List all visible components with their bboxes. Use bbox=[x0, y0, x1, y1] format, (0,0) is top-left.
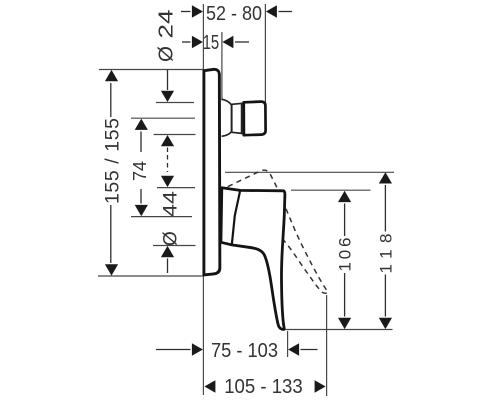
wire extension handle center (74 bottom ref) bbox=[131, 216, 192, 218]
wire extension 106 top bbox=[291, 189, 371, 191]
svg-text:118: 118 bbox=[377, 234, 396, 274]
wire extension 155 bottom bbox=[98, 275, 203, 277]
dimension 106 (right) bbox=[338, 191, 351, 202]
dimension 15 bbox=[192, 36, 234, 49]
wire extension knob top (dia 24) bbox=[156, 102, 194, 104]
dia44 dimension top arrow bbox=[161, 176, 174, 187]
wire extension handle top (dia 44) bbox=[157, 187, 195, 189]
dimension 52-80 bbox=[192, 5, 277, 18]
dimension 74 bbox=[135, 119, 148, 130]
svg-text:24: 24 bbox=[155, 10, 178, 39]
knob ring cylinder bbox=[232, 103, 242, 133]
svg-text:Ø: Ø bbox=[161, 231, 182, 246]
handle dashed alternate position bbox=[209, 165, 328, 320]
wire extension 155 top bbox=[99, 69, 204, 71]
svg-text:155 / 155: 155 / 155 bbox=[102, 118, 124, 204]
wire bottom reference line bbox=[284, 329, 393, 331]
dia24 dimension line bottom arrow bbox=[161, 135, 174, 146]
svg-text:Ø: Ø bbox=[155, 46, 178, 62]
wire extension knob center (74 top ref) bbox=[131, 117, 195, 119]
knob cone neck bbox=[222, 99, 232, 136]
handle cone boundary bbox=[232, 190, 240, 245]
svg-text:74: 74 bbox=[130, 161, 150, 181]
wire extension line 52-80 right bbox=[264, 4, 266, 103]
wire extension line 75-103 right / handle tip bbox=[287, 331, 289, 357]
dimension 75-103 bbox=[192, 343, 299, 356]
wire wall reference line bbox=[202, 4, 204, 395]
wire extension line 105-133 right / dashed tip bbox=[326, 295, 328, 396]
handle (solid, lever down) bbox=[221, 188, 285, 330]
wire extension knob bottom (dia 24) bbox=[154, 134, 196, 136]
svg-text:106: 106 bbox=[336, 238, 355, 272]
dimension 118 (right) bbox=[379, 172, 392, 183]
dia44 dimension bottom arrow bbox=[161, 246, 174, 257]
wire extension line 15 right bbox=[221, 32, 223, 101]
svg-text:75 - 103: 75 - 103 bbox=[211, 339, 278, 362]
dimension 105-133 bbox=[204, 380, 325, 393]
dimension 155 / 155 (left) bbox=[110, 83, 112, 117]
escutcheon plate (side view) bbox=[204, 69, 220, 275]
knob main cylinder bbox=[244, 102, 266, 136]
svg-text:52 - 80: 52 - 80 bbox=[206, 2, 262, 25]
svg-text:15: 15 bbox=[203, 31, 220, 54]
wire extension 118 top bbox=[225, 171, 394, 173]
svg-text:44: 44 bbox=[161, 190, 182, 217]
wire extension handle bottom (dia 44) bbox=[153, 245, 196, 247]
dia24 dimension line top arrow bbox=[167, 70, 169, 90]
svg-text:105 - 133: 105 - 133 bbox=[224, 375, 303, 398]
